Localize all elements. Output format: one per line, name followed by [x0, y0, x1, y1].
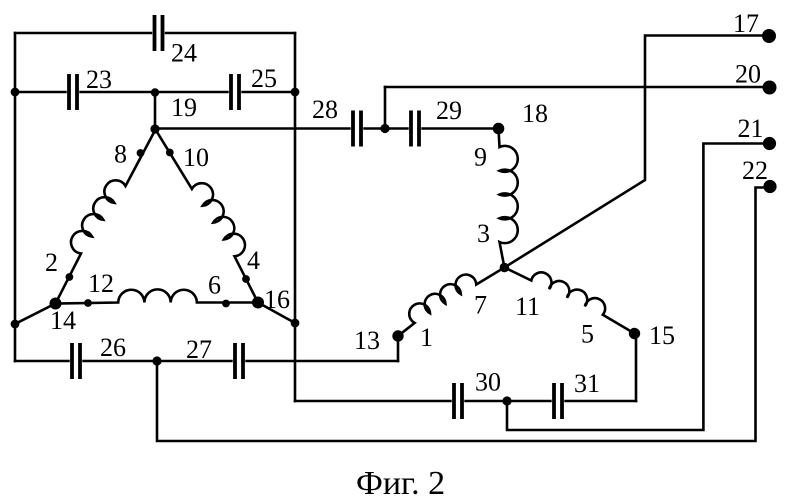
- svg-text:8: 8: [114, 140, 127, 169]
- node junction right rail / cap25 row: [291, 88, 300, 97]
- svg-text:31: 31: [574, 369, 600, 398]
- wire junction 28/29 up: [384, 87, 387, 129]
- svg-text:Фиг. 2: Фиг. 2: [356, 465, 445, 502]
- node 18: [493, 123, 505, 135]
- terminal 17: [762, 29, 776, 43]
- node delta apex: [150, 124, 159, 133]
- svg-text:21: 21: [738, 114, 764, 143]
- wire top horizontal (left block top): [15, 32, 295, 35]
- wire right vertical of block: [294, 33, 297, 401]
- terminal 20: [763, 81, 777, 95]
- node wye center: [500, 263, 510, 273]
- svg-text:17: 17: [733, 9, 759, 38]
- svg-text:5: 5: [581, 320, 594, 349]
- node 14 (delta corner): [50, 298, 62, 310]
- svg-text:4: 4: [247, 246, 260, 275]
- svg-text:6: 6: [208, 271, 221, 300]
- node tap 6: [222, 300, 230, 308]
- svg-text:20: 20: [735, 60, 761, 89]
- node junction left rail / cap23 row: [11, 88, 20, 97]
- node tap 4: [242, 275, 250, 283]
- inductor winding 9-3 (wye vertical): [499, 129, 518, 268]
- svg-text:25: 25: [251, 64, 277, 93]
- terminal 22: [763, 180, 776, 193]
- node tap 8: [137, 149, 145, 157]
- capacitor 24: [152, 15, 165, 51]
- svg-text:7: 7: [474, 291, 487, 320]
- node 16 (delta corner): [252, 297, 264, 309]
- node junction caps 28/29: [380, 124, 389, 133]
- capacitor 23: [67, 74, 80, 110]
- capacitor 28: [351, 111, 364, 147]
- node junction caps 26/27: [152, 356, 161, 365]
- inductor winding 12-6 (bottom of delta): [56, 289, 259, 303]
- node 15: [629, 328, 640, 339]
- svg-text:30: 30: [475, 368, 501, 397]
- svg-text:23: 23: [86, 65, 112, 94]
- capacitor 30: [452, 383, 465, 419]
- capacitor 26: [70, 343, 83, 379]
- svg-text:9: 9: [474, 143, 487, 172]
- node tap 10: [166, 149, 174, 157]
- inductor winding 7-1 (wye left): [398, 268, 504, 337]
- node junction right rail / corner16: [291, 319, 300, 328]
- svg-text:24: 24: [171, 39, 197, 68]
- svg-text:3: 3: [477, 219, 490, 248]
- wire delta corner 16 to right rail: [258, 303, 295, 324]
- wire caps 30,31 row: [295, 400, 636, 403]
- wire caps 26,27 row: [15, 360, 398, 363]
- svg-text:11: 11: [515, 292, 540, 321]
- capacitor 31: [552, 383, 565, 419]
- wire node15 down: [635, 334, 638, 401]
- svg-text:15: 15: [649, 321, 675, 350]
- svg-text:12: 12: [88, 269, 114, 298]
- svg-text:26: 26: [100, 333, 126, 362]
- capacitor 25: [229, 74, 242, 110]
- wire left vertical of block: [14, 33, 17, 361]
- inductor winding 10-4 (right side of delta): [156, 130, 259, 303]
- svg-text:28: 28: [312, 95, 338, 124]
- wire to terminal 17: [504, 36, 769, 268]
- svg-text:2: 2: [45, 248, 58, 277]
- inductor winding 8-2 (left side of delta): [56, 130, 156, 304]
- node junction caps 30/31: [502, 396, 511, 405]
- capacitor 27: [233, 343, 246, 379]
- node tap 12: [84, 299, 92, 307]
- node 19: [151, 88, 159, 96]
- node 13: [392, 330, 403, 341]
- wire to terminal 20: [385, 86, 768, 89]
- svg-text:1: 1: [420, 323, 433, 352]
- svg-text:19: 19: [171, 93, 197, 122]
- inductor winding 11-5 (wye right): [504, 268, 634, 334]
- svg-text:22: 22: [742, 156, 768, 185]
- wire second horizontal (caps 23,25 row): [15, 91, 295, 94]
- wire junction 26/27 to terminal 22: [157, 188, 769, 442]
- svg-text:13: 13: [354, 326, 380, 355]
- svg-text:18: 18: [522, 99, 548, 128]
- capacitor 29: [409, 111, 422, 147]
- svg-text:16: 16: [264, 285, 290, 314]
- wire node13 down: [397, 336, 400, 361]
- svg-text:29: 29: [436, 96, 462, 125]
- wire apex to node18 (caps 28,29 row): [156, 127, 499, 130]
- wire delta corner 14 to left rail: [15, 304, 56, 325]
- svg-text:27: 27: [186, 335, 212, 364]
- wire junction 30/31 to terminal 21: [507, 144, 769, 431]
- wire node19 to delta apex: [154, 92, 157, 129]
- node junction left rail / corner14: [11, 320, 20, 329]
- svg-text:10: 10: [183, 143, 209, 172]
- terminal 21: [763, 137, 776, 150]
- node tap 2: [66, 273, 74, 281]
- svg-text:14: 14: [50, 306, 76, 335]
